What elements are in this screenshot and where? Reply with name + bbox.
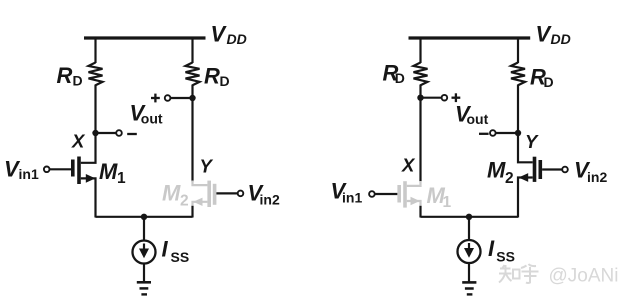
wire: rail to left resistor (right circuit) xyxy=(419,38,421,63)
svg-text:DD: DD xyxy=(551,31,571,47)
node: tail junction dot (left circuit) xyxy=(141,214,147,220)
svg-text:@JoANi: @JoANi xyxy=(549,266,619,287)
svg-text:SS: SS xyxy=(496,249,515,265)
wire: rail to right resistor (left circuit) xyxy=(191,38,193,63)
ground (right circuit) xyxy=(462,282,476,294)
resistor RD right branch (right circuit) xyxy=(511,63,525,86)
wire: current source to ground (left circuit) xyxy=(143,263,145,282)
label Vout (left circuit) xyxy=(130,101,163,127)
transistor M1 (left circuit, active NMOS) xyxy=(71,157,96,218)
current source ISS (left circuit) xyxy=(133,241,156,264)
wire: plus node to plus terminal (left circuit) xyxy=(170,97,192,99)
wire: minus terminal to node Y (right circuit) xyxy=(496,132,518,134)
VDD rail (right circuit) xyxy=(409,36,531,39)
terminal circle: Vout minus (left circuit) xyxy=(116,130,122,136)
label VDD (right circuit) xyxy=(536,22,571,47)
wire: rail to left resistor (left circuit) xyxy=(94,38,96,63)
wire: M2 source to bottom rail (left circuit) xyxy=(191,206,193,218)
terminal circle: Vin1 (right circuit) xyxy=(369,191,375,197)
label RD right branch (right circuit) xyxy=(530,65,554,91)
label plus sign (left circuit) xyxy=(151,94,160,103)
terminal circle: Vout plus (right circuit) xyxy=(442,95,448,101)
node Y junction dot (right circuit) xyxy=(515,130,521,136)
ground (left circuit) xyxy=(137,282,151,294)
label RD left branch (right circuit) xyxy=(383,60,405,86)
wire: Vin1 terminal to M1 gate (right circuit) xyxy=(375,193,398,195)
svg-text:Y: Y xyxy=(525,131,539,152)
svg-text:2: 2 xyxy=(505,170,514,187)
wire: left branch resistor down to M1 drain (right circuit) xyxy=(419,85,421,182)
current source ISS (right circuit) xyxy=(458,240,481,263)
label RD left branch (left circuit) xyxy=(57,63,83,89)
svg-text:D: D xyxy=(220,73,230,89)
label minus sign (right circuit) xyxy=(479,133,489,135)
svg-text:M: M xyxy=(487,158,506,183)
wire: M2 gate to Vin2 terminal (right circuit) xyxy=(542,168,562,170)
transistor M1 (right circuit, greyed inactive NMOS) xyxy=(397,181,420,208)
label Vin2 (left circuit) xyxy=(248,180,280,207)
svg-text:I: I xyxy=(162,237,169,262)
label RD right branch (left circuit) xyxy=(204,64,230,90)
svg-text:X: X xyxy=(401,155,416,176)
wire: bottom source rail (right circuit) xyxy=(421,216,519,218)
node: plus output junction dot (left circuit) xyxy=(189,95,195,101)
svg-text:in2: in2 xyxy=(587,169,607,185)
svg-text:R: R xyxy=(204,64,220,89)
svg-text:M: M xyxy=(99,159,118,184)
label minus sign (left circuit) xyxy=(127,133,137,135)
wire: plus node to plus terminal (right circuit) xyxy=(421,97,442,99)
wire: node X to minus terminal (left circuit) xyxy=(96,132,117,134)
node X junction dot (left circuit) xyxy=(92,130,98,136)
transistor M2 (right circuit, active NMOS) xyxy=(518,157,542,218)
wire: M2 gate to Vin2 terminal (left circuit) xyxy=(216,192,237,194)
svg-text:D: D xyxy=(73,73,83,89)
svg-text:in2: in2 xyxy=(260,191,280,207)
terminal circle: Vout plus (left circuit) xyxy=(165,95,171,101)
terminal circle: Vin2 (right circuit) xyxy=(562,167,568,173)
watermark: zhihu logo glyphs xyxy=(499,264,539,283)
svg-text:Y: Y xyxy=(200,155,214,176)
svg-text:1: 1 xyxy=(117,170,126,187)
label ISS (right circuit) xyxy=(488,236,515,265)
terminal circle: Vin1 (left circuit) xyxy=(44,167,50,173)
wire: left branch resistor to M1 drain (left circuit) xyxy=(81,85,96,163)
label M1 (right circuit, greyed) xyxy=(427,183,452,211)
svg-text:2: 2 xyxy=(180,193,189,210)
svg-text:1: 1 xyxy=(443,194,452,211)
svg-text:I: I xyxy=(488,236,495,261)
svg-text:R: R xyxy=(57,63,73,88)
node: plus output junction dot (right circuit) xyxy=(417,95,423,101)
terminal circle: Vin2 (left circuit) xyxy=(238,191,244,197)
terminal circle: Vout minus (right circuit) xyxy=(490,130,496,136)
svg-text:DD: DD xyxy=(227,31,247,47)
svg-text:D: D xyxy=(395,70,405,86)
svg-text:out: out xyxy=(141,111,163,127)
label ISS (left circuit) xyxy=(162,237,190,266)
label M2 (right circuit) xyxy=(487,158,514,187)
resistor RD left branch (right circuit) xyxy=(414,63,428,86)
label plus sign (right circuit) xyxy=(452,93,461,102)
label Vout (right circuit) xyxy=(455,102,489,128)
svg-text:in1: in1 xyxy=(342,190,362,206)
svg-text:X: X xyxy=(71,130,86,151)
svg-text:V: V xyxy=(211,22,228,47)
label Vin1 (right circuit) xyxy=(331,178,363,205)
node: tail junction dot (right circuit) xyxy=(466,214,472,220)
wire: right branch resistor down to M2 drain (left circuit) xyxy=(191,85,193,182)
wire: tail node to current source (right circuit) xyxy=(468,217,470,241)
svg-text:SS: SS xyxy=(171,249,190,265)
label Vin2 (right circuit) xyxy=(574,158,607,186)
wire: node Y down to M2 drain (right circuit) xyxy=(518,85,533,163)
label M1 (left circuit) xyxy=(99,159,126,187)
wire: rail to right resistor (right circuit) xyxy=(517,38,519,63)
wire: bottom source rail (left circuit) xyxy=(96,216,193,218)
label Vin1 (left circuit) xyxy=(4,157,39,183)
wire: tail node to current source (left circuit) xyxy=(143,217,145,241)
VDD rail (left circuit) xyxy=(84,36,206,39)
wire: current source to ground (right circuit) xyxy=(468,263,470,282)
svg-text:out: out xyxy=(467,111,489,127)
svg-text:D: D xyxy=(544,74,554,90)
transistor M2 (left circuit, greyed inactive NMOS) xyxy=(193,181,217,208)
svg-text:M: M xyxy=(162,181,181,206)
wire: M1 source to bottom rail (right circuit) xyxy=(419,206,421,218)
resistor RD right branch (left circuit) xyxy=(186,63,200,86)
svg-text:in1: in1 xyxy=(19,166,39,182)
label VDD (left circuit) xyxy=(211,22,247,48)
label M2 (left circuit, greyed) xyxy=(162,181,189,210)
resistor RD left branch (left circuit) xyxy=(89,63,103,86)
wire: Vin1 terminal to M1 gate (left circuit) xyxy=(50,168,72,170)
